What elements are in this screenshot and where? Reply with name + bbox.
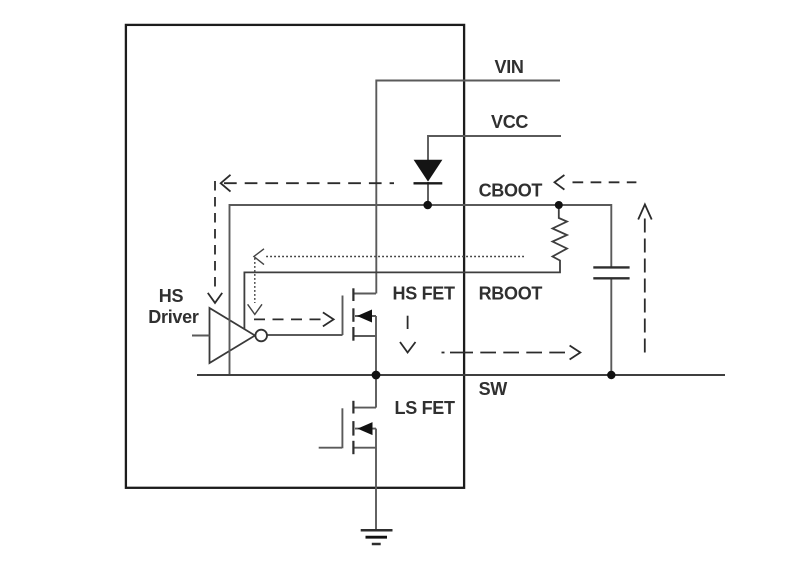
svg-text:VIN: VIN (495, 57, 524, 77)
svg-text:VCC: VCC (491, 112, 528, 132)
svg-text:CBOOT: CBOOT (479, 181, 543, 201)
svg-text:RBOOT: RBOOT (479, 284, 543, 304)
svg-text:HS FET: HS FET (393, 283, 456, 303)
svg-text:Driver: Driver (148, 307, 199, 327)
svg-text:HS: HS (159, 286, 184, 306)
svg-text:SW: SW (479, 379, 508, 399)
svg-text:LS FET: LS FET (395, 398, 456, 418)
